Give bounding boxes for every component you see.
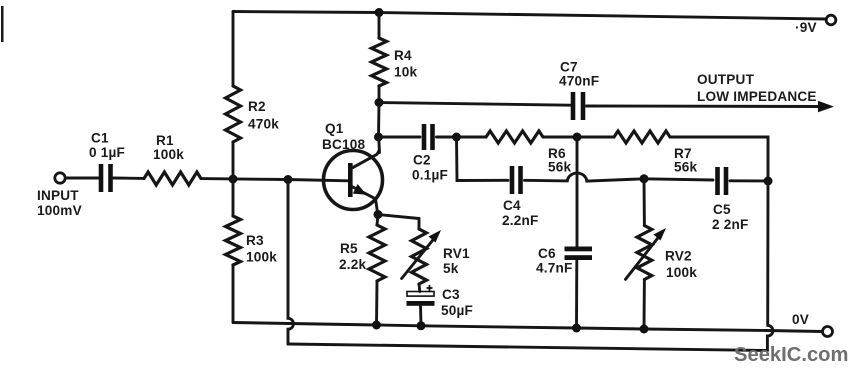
wire rail to R4 <box>378 13 381 39</box>
svg-text:100k: 100k <box>153 147 184 162</box>
svg-text:C7: C7 <box>560 60 578 75</box>
wire node D to C5 <box>644 179 713 180</box>
wire R3 to bottom rail <box>232 265 235 323</box>
node D (C4 / C5 / RV2) <box>640 174 649 183</box>
wire R7 to right corner <box>670 137 768 181</box>
svg-text:56k: 56k <box>674 160 698 175</box>
resistor R7 <box>614 131 698 175</box>
capacitor C3 (electrolytic) <box>407 285 474 318</box>
svg-text:4.7nF: 4.7nF <box>536 261 573 276</box>
node output (collector feed) <box>375 98 384 107</box>
bottom rail (0V) <box>233 323 823 332</box>
wire emitter to RV1 <box>378 215 419 219</box>
wire output node down to collector node <box>377 103 380 138</box>
wire top rail to R2 <box>232 12 235 87</box>
node A2 (base junction) <box>284 175 293 184</box>
wire to RV1 top <box>418 219 421 230</box>
wire base node down to feedback rail <box>288 180 293 345</box>
wire RV1 to C3 <box>418 284 422 292</box>
transistor Q1 <box>322 121 383 215</box>
svg-text:C4: C4 <box>503 198 521 213</box>
svg-text:56k: 56k <box>548 160 572 175</box>
node top rail / R4 <box>375 8 384 17</box>
wire RV2 to bottom rail <box>643 280 646 330</box>
svg-text:50µF: 50µF <box>441 303 473 318</box>
svg-text:·9V: ·9V <box>795 20 817 35</box>
wire collector node to transistor collector <box>377 137 381 153</box>
wire C3 to bottom rail <box>419 306 422 326</box>
input terminal <box>55 173 65 183</box>
node right T corner <box>764 177 773 186</box>
wire node C down to C6 (hop over T row) <box>576 137 579 247</box>
wire input to C1 <box>65 177 98 180</box>
resistor R3 <box>226 216 278 265</box>
resistor R5 <box>339 225 385 281</box>
wire node B down to lower T row <box>457 137 509 181</box>
svg-text:100k: 100k <box>246 250 277 265</box>
+9V terminal <box>826 15 836 25</box>
potentiometer RV1 <box>402 229 470 284</box>
resistor R1 <box>144 133 201 185</box>
top supply rail <box>233 12 826 20</box>
wire emitter to R5 <box>377 215 378 226</box>
node A1 (base bias junction) <box>229 175 238 184</box>
capacitor C5 <box>712 167 749 232</box>
node collector / C2 <box>374 133 383 142</box>
capacitor C7 <box>559 60 599 121</box>
svg-text:R1: R1 <box>156 133 174 148</box>
svg-text:C1: C1 <box>91 131 109 146</box>
wire collector node to C2 <box>379 136 421 139</box>
svg-text:C5: C5 <box>713 202 731 217</box>
svg-text:BC108: BC108 <box>322 137 366 152</box>
svg-text:R3: R3 <box>246 233 264 248</box>
potentiometer RV2 <box>626 226 698 281</box>
wire C6 to bottom rail <box>575 260 578 328</box>
svg-text:100k: 100k <box>666 265 697 280</box>
svg-text:INPUT: INPUT <box>37 188 79 203</box>
wire R5 to bottom rail <box>375 281 378 325</box>
capacitor C1 <box>89 131 125 193</box>
svg-text:2 2nF: 2 2nF <box>712 217 749 232</box>
svg-text:R5: R5 <box>340 241 358 256</box>
svg-text:C6: C6 <box>538 246 556 261</box>
svg-text:C2: C2 <box>413 153 431 168</box>
svg-text:0V: 0V <box>792 312 809 327</box>
node R5 / rail <box>372 321 381 330</box>
svg-text:SeekIC.com: SeekIC.com <box>734 344 848 366</box>
svg-text:2.2k: 2.2k <box>339 257 366 272</box>
svg-text:RV2: RV2 <box>665 249 692 264</box>
capacitor C4 <box>502 166 539 228</box>
wire node D down to RV2 <box>643 179 646 226</box>
svg-text:2.2nF: 2.2nF <box>502 213 539 228</box>
svg-text:R4: R4 <box>394 48 412 63</box>
node emitter <box>374 210 383 219</box>
wire node B to R6 <box>457 136 487 139</box>
wire C2 to node B <box>437 136 457 139</box>
capacitor C6 <box>536 246 592 276</box>
node C3 / rail <box>417 321 426 330</box>
svg-text:C3: C3 <box>442 287 460 302</box>
resistor R4 <box>372 38 418 86</box>
svg-text:5k: 5k <box>443 261 459 276</box>
capacitor C2 <box>412 124 448 183</box>
svg-text:RV1: RV1 <box>443 246 470 261</box>
output arrow <box>818 101 834 112</box>
svg-text:OUTPUT: OUTPUT <box>697 72 755 87</box>
svg-text:0 1µF: 0 1µF <box>89 145 125 160</box>
resistor R6 <box>486 131 572 175</box>
scan edge artifact <box>1 6 4 42</box>
node C (R6 / R7 / C6) <box>573 133 582 142</box>
wire R2 to node A1 <box>232 142 235 179</box>
svg-text:10k: 10k <box>394 65 418 80</box>
svg-text:0.1µF: 0.1µF <box>412 168 448 183</box>
wire C1 to R1 <box>113 177 144 180</box>
svg-text:100mV: 100mV <box>37 203 82 218</box>
svg-text:Q1: Q1 <box>325 121 344 136</box>
svg-text:LOW IMPEDANCE: LOW IMPEDANCE <box>697 89 817 104</box>
0V terminal <box>823 327 833 337</box>
svg-text:470k: 470k <box>248 117 279 132</box>
wire right vertical down to 0V rail <box>767 181 772 351</box>
second bottom rail (feedback return) <box>288 344 767 351</box>
wire C4 to node D <box>525 173 645 181</box>
wire R6 to node C <box>543 136 577 139</box>
resistor R2 <box>226 86 280 142</box>
svg-text:470nF: 470nF <box>559 74 599 89</box>
wire R1 to node A1 <box>201 177 288 181</box>
wire node A1 to R3 <box>232 179 235 216</box>
node C6 / rail <box>572 324 581 333</box>
wire output node to C7 <box>379 103 570 106</box>
node B (C2 / R6 / C4) <box>452 133 461 142</box>
wire R4 to output node <box>378 86 381 103</box>
wire node C to R7 <box>577 136 614 139</box>
wire C5 to right node <box>730 179 768 182</box>
wire node A2 to base <box>288 180 348 181</box>
node RV2 / rail <box>640 325 649 334</box>
wire C7 to output arrow <box>587 105 823 108</box>
svg-text:R2: R2 <box>248 99 266 114</box>
